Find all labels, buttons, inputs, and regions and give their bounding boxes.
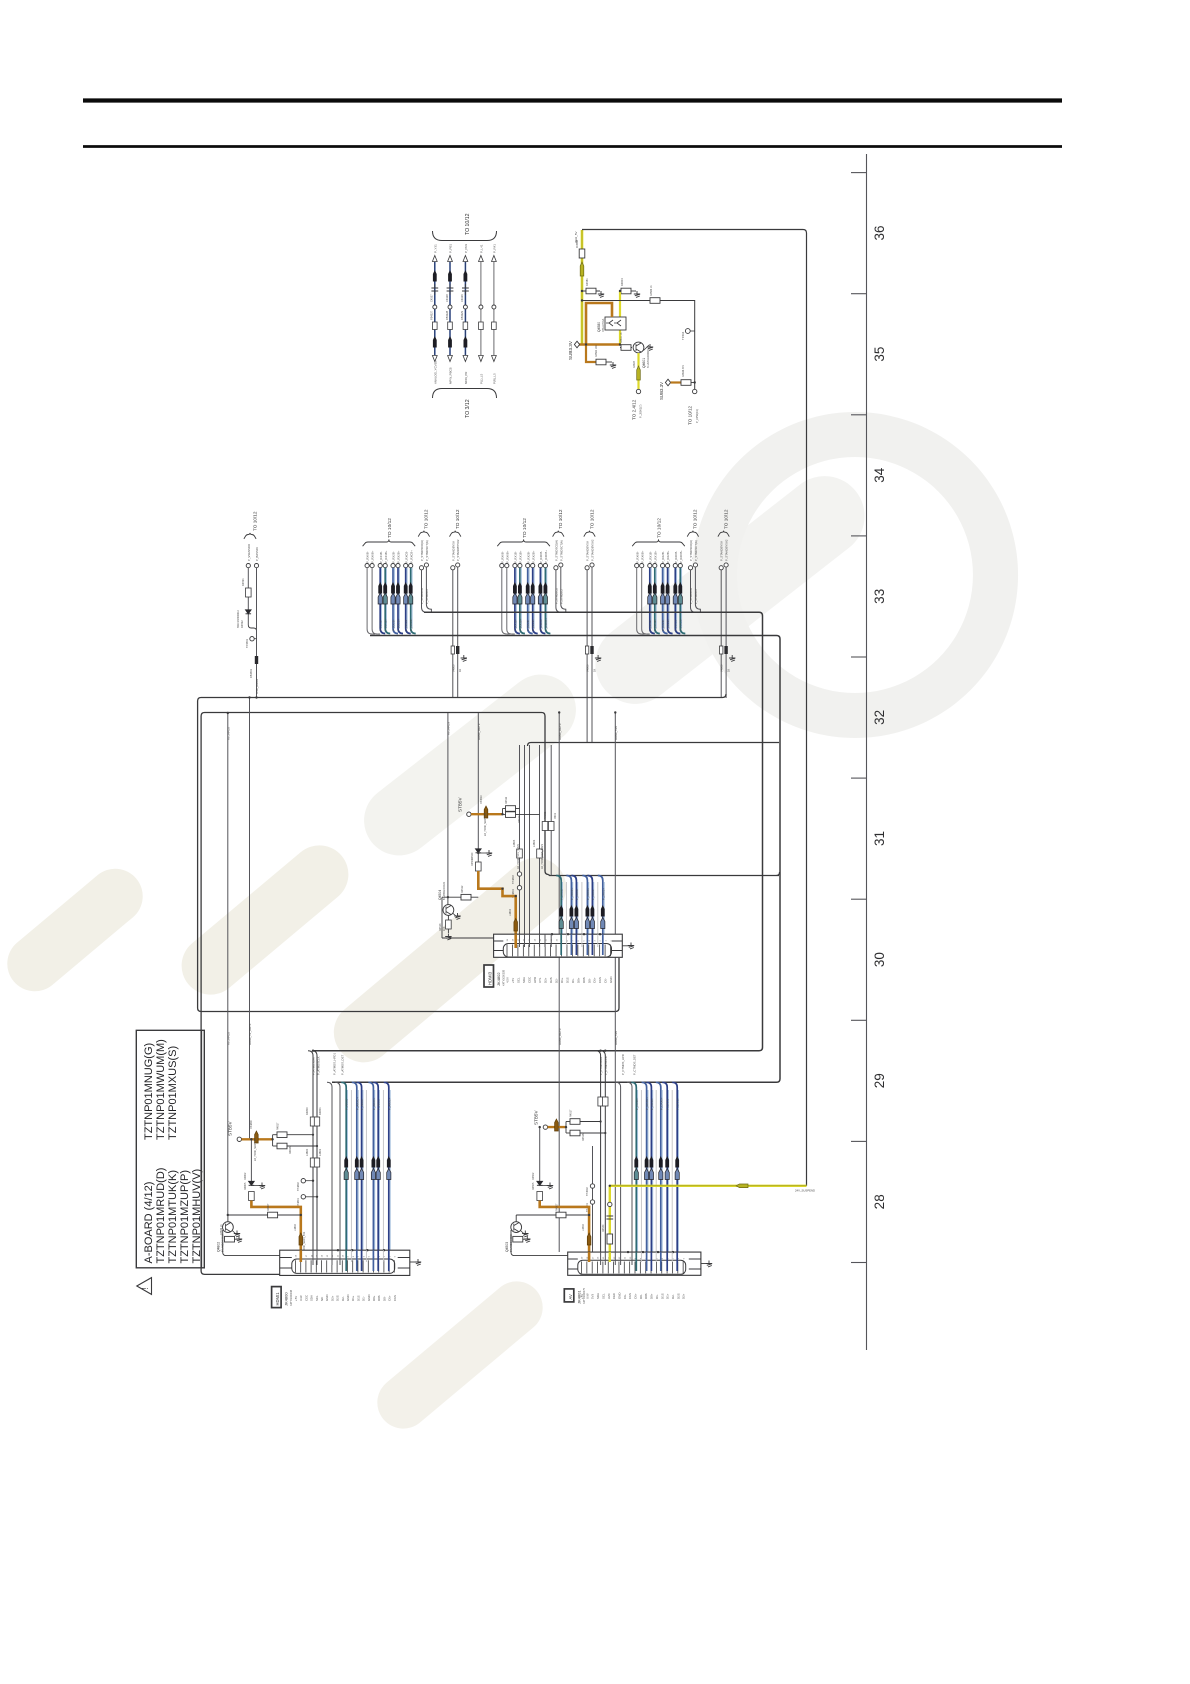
TMDS line P_CRX1- [662, 1082, 667, 1271]
svg-text:CK+: CK+ [634, 1293, 638, 1299]
svg-text:P_RXCB-: P_RXCB- [539, 619, 543, 631]
svg-text:R4530: R4530 [602, 1224, 605, 1232]
svg-text:P_RX1B-: P_RX1B- [648, 551, 652, 563]
svg-text:D1+: D1+ [351, 1295, 355, 1301]
signal line P_RXCB+ [678, 564, 682, 568]
signal line P_RXCB- [404, 564, 408, 568]
yellow branch riser [619, 291, 621, 345]
analog loop top edge [198, 958, 619, 1012]
signal line P_RX1B+ [518, 564, 522, 568]
svg-text:D2S: D2S [336, 1295, 340, 1301]
svg-text:V4800: V4800 [586, 664, 590, 672]
svg-text:P_ARXC-: P_ARXC- [345, 1098, 349, 1110]
svg-text:2A_HDMI_MAIN_5V: 2A_HDMI_MAIN_5V [254, 1138, 257, 1161]
svg-text:1K: 1K [458, 669, 462, 672]
pullup resistors R4511/R4510 [502, 809, 504, 815]
wire along box edge [201, 1030, 203, 1268]
svg-text:!: ! [141, 1287, 150, 1289]
top border rules [83, 98, 1062, 102]
svg-text:SCL: SCL [601, 1293, 605, 1299]
svg-text:TO 10/12: TO 10/12 [465, 213, 471, 235]
svg-text:P_CRX0+: P_CRX0+ [659, 1097, 663, 1110]
signal line P_RX1B+ [383, 564, 387, 568]
svg-text:P_ARX1-: P_ARX1- [377, 1098, 381, 1110]
svg-text:HPD: HPD [533, 977, 537, 983]
svg-text:D2S: D2S [549, 977, 553, 983]
signal line P_RX0B- [365, 564, 369, 568]
svg-text:TZTNP01MZUP(P): TZTNP01MZUP(P) [179, 1170, 191, 1264]
svg-text:D2-: D2- [341, 1296, 345, 1301]
Q4503 driver [516, 1214, 589, 1216]
svg-text:FB4591: FB4591 [249, 668, 253, 678]
net HDMI_DET0 vertical [558, 713, 560, 1252]
signal line P_RX2B+ [396, 564, 400, 568]
svg-text:P_2RX1-: P_2RX1- [591, 889, 595, 900]
svg-text:P_STMDSCD(A): P_STMDSCD(A) [420, 540, 424, 561]
svg-text:V4800: V4800 [720, 664, 724, 672]
svg-text:STB5V: STB5V [458, 797, 463, 812]
TMDS line P_ARXC- [341, 1082, 346, 1271]
svg-text:GND: GND [367, 1295, 371, 1301]
svg-text:P_RX1B-: P_RX1B- [379, 551, 383, 563]
STB5V terminal [543, 1125, 547, 1129]
resistor R4591 [247, 568, 249, 625]
svg-text:C4329: C4329 [460, 294, 464, 302]
svg-text:Q4802: Q4802 [217, 1242, 221, 1252]
svg-text:HDMI_5V_DET1: HDMI_5V_DET1 [248, 1023, 252, 1045]
svg-text:GND: GND [325, 1295, 329, 1301]
svg-text:R4505: R4505 [532, 1182, 535, 1190]
inter-sheet group G3 TO 10/12 [632, 539, 685, 546]
svg-text:TO 10/12: TO 10/12 [522, 518, 528, 538]
svg-text:D2-: D2- [671, 1294, 675, 1299]
pullups R4517/R4516 [565, 1122, 567, 1134]
resistor R4588 [579, 249, 585, 258]
series parts on PD [585, 646, 588, 654]
svg-text:SDA: SDA [522, 977, 526, 983]
svg-text:P_STMDSCT: P_STMDSCT [425, 588, 429, 604]
svg-text:P_RXCB-: P_RXCB- [674, 619, 678, 631]
svg-text:P_RX2B+: P_RX2B+ [666, 550, 670, 563]
svg-text:HDMI_5V0: HDMI_5V0 [614, 725, 618, 740]
svg-text:L4502: L4502 [582, 1223, 585, 1231]
svg-text:P_STMDSCT(A): P_STMDSCT(A) [694, 540, 698, 561]
test point TP464 [685, 329, 690, 334]
svg-text:ANALOG_YCVBS: ANALOG_YCVBS [433, 360, 437, 384]
24V_SUSPEND yellow rail [610, 1185, 807, 1187]
svg-text:D0-: D0- [587, 978, 591, 983]
SCL/SDA verticals [519, 745, 521, 934]
svg-text:AVC: AVC [607, 1293, 611, 1299]
transistor Q4601 [633, 342, 644, 353]
signal line P_RX2B- [526, 564, 530, 568]
R4520 (series) [476, 862, 482, 871]
svg-text:D1S: D1S [565, 977, 569, 983]
svg-text:TP464: TP464 [681, 331, 685, 340]
svg-text:D4502: D4502 [532, 1172, 535, 1180]
svg-text:R4511: R4511 [505, 796, 508, 804]
svg-text:K4TY1000038: K4TY1000038 [290, 1289, 293, 1306]
svg-text:R4520: R4520 [471, 852, 474, 860]
resistor R4581 with ground [582, 290, 600, 292]
svg-text:P_ATMDSDAT: P_ATMDSDAT [312, 1056, 316, 1075]
svg-text:D2S: D2S [676, 1293, 680, 1299]
TMDS line P_ARX0- [357, 1082, 362, 1271]
svg-text:P_RX1B-: P_RX1B- [513, 619, 517, 631]
net HDMI_5V_DET1 vertical [249, 698, 251, 1139]
HDMI2 TMDS bus [549, 875, 780, 876]
svg-text:R4604: R4604 [620, 278, 624, 286]
svg-text:P_RX1B-: P_RX1B- [514, 551, 518, 563]
junction dots [581, 299, 583, 301]
resistor R4582 with ground [596, 359, 606, 365]
TMDS line P_2RX0- [571, 876, 576, 956]
svg-text:30: 30 [872, 952, 887, 967]
svg-text:P_STANDBY5V2: P_STANDBY5V2 [456, 539, 460, 561]
svg-text:TO 10/12: TO 10/12 [688, 405, 693, 425]
svg-text:D2-: D2- [555, 978, 559, 983]
base resistor R4506 [510, 1230, 512, 1239]
bus1 (y=612) [313, 612, 763, 1050]
svg-text:CEC: CEC [527, 977, 531, 983]
signal line P_RX2B+ [531, 564, 535, 568]
emitter ground [453, 913, 458, 917]
jack ground lug [622, 945, 630, 947]
signal line P_RXCB- [673, 564, 677, 568]
svg-text:HDMI_DET3: HDMI_DET3 [477, 723, 481, 740]
svg-text:P_STMDSCD: P_STMDSCD [420, 588, 424, 604]
svg-text:R4591: R4591 [241, 578, 245, 586]
diode D4592 [246, 610, 252, 614]
svg-text:R4816: R4816 [289, 1146, 292, 1154]
net STB5V3 vertical [477, 713, 479, 871]
svg-text:D1-: D1- [655, 1294, 659, 1299]
SDA/SCL drop pair to AV jack [596, 1051, 601, 1259]
svg-text:GND: GND [609, 977, 613, 983]
base resistor R4513 [447, 915, 449, 920]
svg-text:R4801: R4801 [318, 1107, 322, 1115]
svg-text:D2+: D2+ [330, 1295, 334, 1301]
svg-text:P_RX1B+: P_RX1B+ [384, 618, 388, 631]
inter-sheet pair PD TO 10/12 (pass-down) [584, 531, 595, 537]
inter-sheet pair PA TO 10/12 (to bus1) [418, 531, 429, 537]
collector line to jack [442, 937, 494, 939]
svg-text:P_STMDSCT(A): P_STMDSCT(A) [425, 540, 429, 561]
svg-text:L4800: L4800 [305, 1148, 309, 1156]
svg-text:R4608 47K: R4608 47K [682, 365, 685, 377]
svg-text:P_RX1B+: P_RX1B+ [519, 550, 523, 563]
SCL/SDA thin drops [327, 1082, 332, 1259]
test vias [517, 872, 521, 876]
svg-text:C4328: C4328 [445, 294, 449, 302]
net P_HPD3 vertical (to Q4504) [447, 713, 449, 897]
bus2 (y=635.5) [332, 636, 780, 1083]
svg-text:Q4580: Q4580 [597, 322, 601, 332]
svg-text:D0S: D0S [582, 977, 586, 983]
decorative watermark [0, 412, 1018, 1439]
svg-text:P_CRX2+: P_CRX2+ [676, 1097, 680, 1110]
svg-text:P_CTMDS_HPD: P_CTMDS_HPD [621, 1054, 625, 1075]
svg-text:P_RX1B+: P_RX1B+ [653, 550, 657, 563]
SUB3.3V diamond terminal [574, 341, 579, 348]
svg-text:31: 31 [872, 831, 887, 846]
analog signal line P_PR1 [464, 262, 466, 355]
wire to outer loop [582, 230, 807, 1186]
svg-text:TP4502: TP4502 [586, 1187, 589, 1196]
svg-text:P_CRX0-: P_CRX0- [650, 1098, 654, 1110]
svg-text:D1+: D1+ [560, 977, 564, 983]
svg-text:D4802: D4802 [244, 1172, 247, 1180]
HDMI1 connector body [280, 1250, 410, 1275]
svg-text:P_R41: P_R41 [492, 244, 496, 253]
svg-text:P_RX1B+: P_RX1B+ [384, 550, 388, 563]
svg-text:TO 10/12: TO 10/12 [693, 509, 698, 529]
svg-text:CK+: CK+ [388, 1295, 392, 1301]
svg-text:P_J5001(7): P_J5001(7) [639, 404, 643, 418]
svg-text:JK4802: JK4802 [496, 972, 501, 986]
svg-text:D0+: D0+ [650, 1293, 654, 1299]
top edge junction dots [337, 1249, 339, 1251]
svg-text:Q4601: Q4601 [642, 358, 646, 368]
TMDS line P_2RXC- [556, 876, 561, 956]
svg-text:P_2RX0+: P_2RX0+ [586, 888, 590, 900]
svg-text:CK-: CK- [604, 978, 608, 983]
loop A2 top edge [201, 713, 548, 875]
svg-text:TZTNP01MXUS(S): TZTNP01MXUS(S) [167, 1046, 179, 1140]
svg-text:P_STANDBY5V2: P_STANDBY5V2 [591, 539, 595, 561]
svg-text:P_RX2B-: P_RX2B- [392, 551, 396, 563]
svg-text:R4582 10K: R4582 10K [595, 345, 598, 357]
svg-text:P_CRXC-: P_CRXC- [635, 1098, 639, 1110]
svg-text:P_ARXC+: P_ARXC+ [355, 1097, 359, 1110]
svg-text:TO 10/12: TO 10/12 [589, 509, 594, 529]
warning triangle [137, 1278, 152, 1295]
svg-text:P_RX2B+: P_RX2B+ [531, 550, 535, 563]
signal line P_RX2B- [661, 564, 665, 568]
svg-text:R4807: R4807 [267, 1203, 270, 1211]
svg-text:R4800: R4800 [305, 1107, 309, 1115]
svg-text:R4806 1K: R4806 1K [220, 1224, 223, 1235]
wire stubs into jack [345, 1250, 347, 1271]
inter-sheet connector bracket TO 10/12 (top) [433, 231, 497, 241]
inter-sheet pair PE TO 10/12 (to bus1) [687, 531, 698, 537]
svg-text:CKS: CKS [628, 1293, 632, 1299]
svg-text:L4801: L4801 [318, 1148, 322, 1156]
bead FB4580 (yellow) [580, 262, 584, 276]
svg-text:P_XPW(13): P_XPW(13) [695, 409, 699, 423]
svg-text:P_RXCB+: P_RXCB+ [544, 550, 548, 563]
svg-text:10K: 10K [443, 926, 446, 931]
svg-text:FB4800: FB4800 [250, 1120, 253, 1129]
svg-text:FB4329: FB4329 [460, 310, 464, 320]
svg-text:TP4803: TP4803 [512, 875, 515, 884]
inductor L4805 [517, 849, 523, 858]
svg-text:P_STMDSCD: P_STMDSCD [689, 588, 693, 604]
emitter to jack shell [223, 1239, 280, 1255]
signal line P_RX1B- [513, 564, 517, 568]
orange staircase to jack pin [540, 1201, 589, 1260]
analog signal line P_PB1 [449, 262, 451, 355]
svg-text:D0-: D0- [639, 1294, 643, 1299]
svg-text:P_STANDBY5V: P_STANDBY5V [451, 541, 455, 561]
svg-text:TO 10/12: TO 10/12 [455, 509, 460, 529]
svg-text:SCL: SCL [315, 1295, 319, 1301]
svg-text:SDA: SDA [596, 1293, 600, 1299]
svg-text:SCL: SCL [516, 977, 520, 983]
svg-text:R4805: R4805 [244, 1182, 247, 1190]
svg-text:P_2RX0-: P_2RX0- [575, 889, 579, 900]
svg-text:29: 29 [872, 1073, 887, 1088]
wire stubs into jack [560, 934, 562, 955]
svg-text:P_ATMDS_DET: P_ATMDS_DET [341, 1055, 345, 1075]
svg-text:L4803: L4803 [532, 839, 536, 847]
pullups R4817/R4816 [272, 1135, 274, 1146]
svg-text:R4516: R4516 [582, 1133, 585, 1141]
svg-text:L4804: L4804 [509, 908, 512, 916]
signal line P_RX1B- [378, 564, 382, 568]
R4805 into orange feed [249, 1192, 255, 1201]
svg-text:U/W: U/W [585, 1293, 589, 1299]
svg-text:P_RXCB-: P_RXCB- [404, 551, 408, 563]
signal line P_RX2B+ [666, 564, 670, 568]
svg-text:TZTNP01MNUG(G): TZTNP01MNUG(G) [143, 1043, 155, 1140]
svg-text:TO 10/12: TO 10/12 [723, 509, 728, 529]
svg-text:P_RX2B-: P_RX2B- [526, 551, 530, 563]
svg-text:P_RX1B+: P_RX1B+ [653, 618, 657, 631]
svg-text:TO 2.4/12: TO 2.4/12 [632, 399, 637, 420]
svg-text:P_RX1B+: P_RX1B+ [518, 618, 522, 631]
svg-text:P_2RX2+: P_2RX2+ [601, 888, 605, 900]
svg-text:HDMI1: HDMI1 [275, 1292, 280, 1306]
svg-text:P_RX0B-: P_RX0B- [366, 551, 370, 563]
svg-text:P_VSENSOR: P_VSENSOR [247, 544, 251, 561]
svg-text:B-1AHDG00002X: B-1AHDG00002X [647, 349, 650, 368]
svg-text:P_ATMDSCLK: P_ATMDSCLK [317, 1056, 321, 1075]
svg-text:HDMI_DET0: HDMI_DET0 [558, 723, 562, 740]
svg-text:D1-: D1- [362, 1296, 366, 1301]
svg-text:AV: AV [568, 1294, 573, 1299]
svg-text:P_STANDBY5V2: P_STANDBY5V2 [725, 539, 729, 561]
SDA/SCL drop pair to HDMI1 [308, 1051, 313, 1259]
svg-text:CK+: CK+ [593, 977, 597, 983]
TMDS line P_ARX2+ [384, 1082, 389, 1271]
svg-text:MON_PR: MON_PR [464, 372, 468, 384]
svg-text:28: 28 [872, 1194, 887, 1209]
A-BOARD title block [136, 1030, 204, 1268]
HDMI1 label [272, 1287, 282, 1308]
svg-text:P_STANDBY5V: P_STANDBY5V [720, 541, 724, 561]
svg-text:P_2RXC-: P_2RXC- [560, 888, 564, 900]
svg-text:AV_HPD2: AV_HPD2 [227, 727, 231, 740]
svg-text:D1S: D1S [660, 1293, 664, 1299]
svg-text:D2+: D2+ [682, 1293, 686, 1299]
svg-text:P_RX2B-: P_RX2B- [661, 551, 665, 563]
connector pins [507, 945, 611, 957]
signal line P_RX0B+ [370, 564, 374, 568]
inter-sheet group G2 TO 10/12 [497, 539, 550, 546]
svg-text:P_L41: P_L41 [479, 244, 483, 253]
TMDS line P_CRXC- [631, 1082, 636, 1271]
series parts on PB [451, 646, 454, 654]
svg-text:STB5V: STB5V [228, 1121, 233, 1136]
svg-text:P_Y31: P_Y31 [433, 244, 437, 253]
svg-text:D1+: D1+ [666, 1293, 670, 1299]
svg-text:TO 10/12: TO 10/12 [253, 511, 258, 531]
svg-text:R4607: R4607 [633, 360, 636, 368]
SUB3.3V diamond 2 + resistor R4608 [665, 379, 670, 386]
HDMI3 label [484, 965, 494, 987]
svg-text:A-BOARD (4/12): A-BOARD (4/12) [143, 1182, 155, 1264]
signal line P_RX1B- [648, 564, 652, 568]
svg-text:R4589 1K: R4589 1K [650, 285, 653, 296]
svg-text:P_CTMDSDAT: P_CTMDSDAT [599, 1056, 603, 1075]
svg-text:P_RXCB+: P_RXCB+ [409, 618, 413, 631]
svg-text:AV_HPD3: AV_HPD3 [447, 722, 451, 735]
svg-text:R4581: R4581 [585, 278, 589, 286]
loop A2 left edge down to HDMI1 shield [201, 716, 280, 1274]
svg-text:R4817: R4817 [277, 1122, 280, 1130]
svg-text:SDA: SDA [310, 1295, 314, 1301]
svg-text:GND: GND [346, 1295, 350, 1301]
svg-text:2A_HDMI_MAIN_5V: 2A_HDMI_MAIN_5V [484, 813, 487, 836]
test points TP4802/TP4801 [301, 1179, 305, 1183]
svg-text:P_CRX1-: P_CRX1- [666, 1098, 670, 1110]
svg-text:JK4800: JK4800 [284, 1292, 289, 1306]
svg-text:4.5V: 4.5V [506, 977, 510, 983]
svg-text:TP4591: TP4591 [245, 638, 249, 648]
signal line P_RXCB+ [409, 564, 413, 568]
svg-text:P_ATMDS_HPD1: P_ATMDS_HPD1 [332, 1053, 336, 1075]
svg-text:MPW_PBCB: MPW_PBCB [449, 367, 453, 384]
svg-text:32: 32 [872, 710, 887, 725]
net HDMI_5V0 vertical [614, 713, 616, 1252]
svg-text:1K: 1K [593, 669, 597, 672]
transistor Q4580 (dual digital) [605, 317, 626, 330]
series bar [255, 656, 258, 664]
svg-text:P_STMDSCD(A): P_STMDSCD(A) [554, 540, 558, 561]
svg-text:P_STANDBY5V: P_STANDBY5V [586, 541, 590, 561]
svg-text:R4801: R4801 [544, 811, 547, 819]
svg-text:P_STMDSCD(A): P_STMDSCD(A) [689, 540, 693, 561]
svg-text:TO 10/12: TO 10/12 [657, 518, 663, 538]
svg-text:P_RX0B-: P_RX0B- [500, 551, 504, 563]
inter-sheet pair PF TO 10/12 (pass-down) [718, 531, 729, 537]
svg-text:P_RXCB+: P_RXCB+ [679, 550, 683, 563]
base resistor R4611 [620, 347, 632, 349]
TMDS line P_ARXC+ [352, 1082, 357, 1271]
TMDS line P_2RX1- [587, 876, 592, 956]
orange staircase to jack pin [251, 1201, 300, 1260]
TMDS line P_CRX0+ [656, 1082, 661, 1271]
svg-text:D0+: D0+ [576, 977, 580, 983]
junction H line [442, 896, 478, 898]
signal line P_RX0B- [635, 564, 639, 568]
TMDS line P_ARX0+ [368, 1082, 373, 1271]
svg-text:D1S: D1S [356, 1295, 360, 1301]
TMDS line P_CRX2+ [672, 1082, 677, 1271]
analog signal line P_Y31 [434, 262, 436, 355]
inductor L4803 [537, 849, 543, 858]
signal line P_RXCB- [538, 564, 542, 568]
svg-text:B0JCMM000012: B0JCMM000012 [237, 610, 240, 628]
svg-text:P_BASSIN: P_BASSIN [255, 547, 259, 561]
svg-text:D0S: D0S [377, 1295, 381, 1301]
Q4802 driver [228, 1214, 301, 1216]
AV connector body [568, 1252, 701, 1275]
HDMI3 connector body [494, 934, 623, 957]
suspend feed into AV jack (yellow) [609, 1186, 611, 1259]
svg-text:P_RXCB+: P_RXCB+ [409, 550, 413, 563]
